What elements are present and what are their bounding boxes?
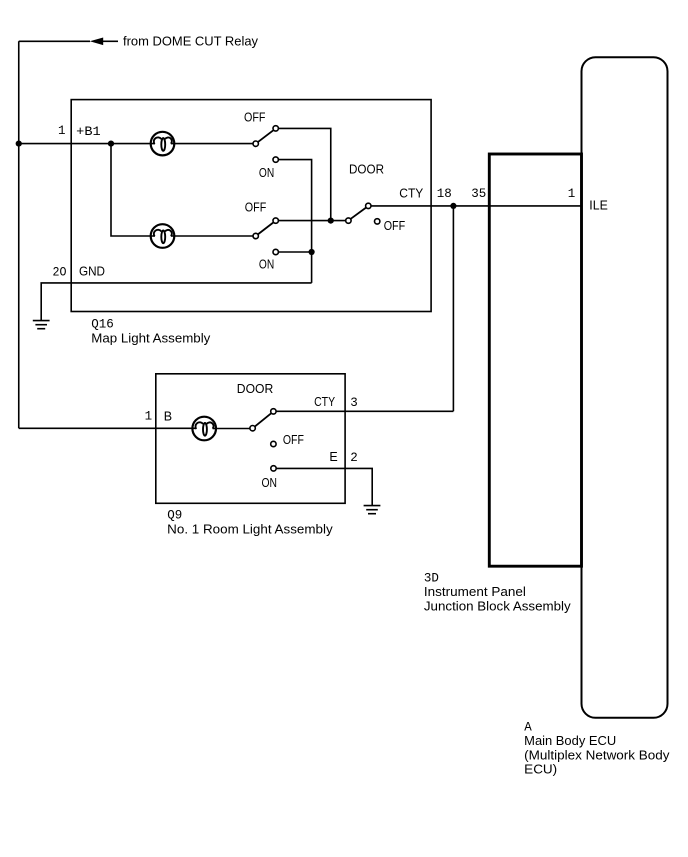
node junction at +B1 feed — [16, 141, 22, 147]
lamp 2 map light bulb — [151, 224, 175, 248]
ground symbol Q16 — [33, 321, 50, 329]
svg-text:Instrument Panel: Instrument Panel — [424, 585, 526, 599]
svg-text:OFF: OFF — [244, 110, 266, 124]
wire GND pin 20 — [41, 283, 311, 321]
lamp 3 room light bulb — [192, 417, 216, 441]
wire switch2 OFF contact to door switch — [279, 220, 346, 222]
svg-text:2O: 2O — [53, 265, 67, 279]
switch S3 OFF contact open — [375, 219, 380, 224]
wire lamp2 to switch2 — [171, 235, 253, 237]
svg-text:DOOR: DOOR — [349, 162, 384, 176]
svg-text:3D: 3D — [424, 571, 439, 585]
svg-text:A: A — [524, 721, 532, 735]
wire switch1 OFF contact to right bus — [279, 128, 331, 220]
switch S1 ON contact — [273, 157, 278, 162]
svg-text:Q9: Q9 — [167, 508, 182, 522]
switch S1 OFF contact — [273, 126, 278, 131]
svg-text:3: 3 — [350, 396, 358, 410]
lamp 1 map light bulb — [151, 132, 175, 156]
wire +B1 pin 1 horizontal — [19, 143, 155, 145]
wire switch2 ON contact to ground bus — [279, 251, 312, 253]
wire from DOME CUT relay feed (top horizontal) — [19, 40, 90, 42]
switch S4 ON contact — [271, 466, 276, 471]
svg-text:ON: ON — [259, 257, 274, 271]
svg-text:ON: ON — [259, 166, 274, 180]
box Q9 No.1 Room Light Assembly — [156, 374, 345, 504]
wire left feed vertical — [18, 41, 20, 428]
svg-text:from DOME CUT Relay: from DOME CUT Relay — [123, 34, 259, 48]
svg-text:(Multiplex Network Body: (Multiplex Network Body — [524, 748, 670, 762]
switch S4 DOOR contact — [271, 409, 276, 414]
wire branch to lamp 2 — [111, 144, 155, 236]
svg-text:E: E — [329, 450, 337, 464]
wire arrow tail — [103, 40, 118, 42]
svg-text:Junction Block Assembly: Junction Block Assembly — [424, 600, 572, 614]
svg-text:18: 18 — [437, 187, 452, 201]
switch S4 blade — [255, 413, 271, 426]
svg-text:2: 2 — [350, 451, 358, 465]
svg-text:1: 1 — [568, 187, 576, 201]
ground symbol Q9 — [364, 506, 381, 514]
switch S3 door switch pivot contact — [346, 218, 351, 223]
switch S2 OFF contact — [273, 218, 278, 223]
svg-text:Main Body ECU: Main Body ECU — [524, 734, 616, 748]
wire B feed into Q9 — [19, 427, 197, 429]
svg-text:OFF: OFF — [384, 219, 406, 233]
svg-text:OFF: OFF — [245, 200, 267, 214]
wire lamp1 to switch1 — [171, 143, 253, 145]
svg-text:CTY: CTY — [399, 186, 424, 200]
svg-text:+B1: +B1 — [76, 125, 101, 139]
switch S1 blade — [258, 130, 273, 142]
svg-text:CTY: CTY — [314, 395, 336, 409]
switch S2 blade — [258, 223, 273, 235]
box 3D instrument panel junction block — [489, 154, 581, 566]
switch S4 OFF contact open — [271, 441, 276, 446]
box Q16 Map Light Assembly — [71, 100, 431, 312]
arrow head (points left) — [90, 38, 103, 46]
svg-text:GND: GND — [79, 265, 105, 279]
switch S2 ON contact — [273, 249, 278, 254]
box A main body ECU rounded — [582, 57, 668, 718]
wire switch1 ON contact down — [279, 160, 312, 283]
wire CTY junction down to Q9 CTY — [452, 206, 454, 411]
wire E pin 2 to ground — [277, 468, 373, 505]
node junction to lamp 2 branch — [108, 141, 114, 147]
svg-text:1: 1 — [58, 124, 66, 138]
node junction CTY bus — [450, 203, 456, 209]
wire Q9 CTY to junction — [277, 410, 454, 412]
svg-text:OFF: OFF — [283, 433, 304, 447]
switch S3 DOOR contact — [366, 203, 371, 208]
switch S4 pivot contact — [250, 426, 255, 431]
svg-text:35: 35 — [471, 187, 486, 201]
node junction ON bus — [309, 249, 315, 255]
switch S3 blade — [351, 208, 366, 219]
switch S1 pivot contact — [253, 141, 258, 146]
svg-text:ILE: ILE — [589, 198, 608, 212]
svg-text:No. 1 Room Light Assembly: No. 1 Room Light Assembly — [167, 523, 333, 537]
svg-text:Map Light Assembly: Map Light Assembly — [91, 331, 211, 345]
svg-text:ECU): ECU) — [524, 763, 557, 777]
svg-text:ON: ON — [262, 476, 278, 490]
svg-text:DOOR: DOOR — [237, 382, 273, 396]
wire CTY to junction block ILE — [371, 205, 581, 207]
svg-text:B: B — [164, 409, 172, 423]
svg-text:Q16: Q16 — [91, 317, 114, 331]
switch S2 pivot contact — [253, 233, 258, 238]
node junction OFF bus — [328, 218, 334, 224]
wire lamp3 to switch — [213, 428, 250, 430]
svg-text:1: 1 — [145, 409, 153, 423]
